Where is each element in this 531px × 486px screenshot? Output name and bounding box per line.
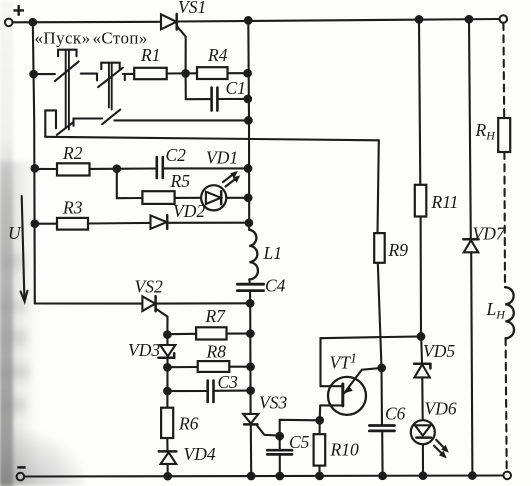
wire dashed load mid bbox=[503, 152, 506, 287]
node R2 row left bbox=[32, 165, 39, 172]
node rail VD7 bbox=[469, 472, 476, 479]
wire VD1 to column bbox=[226, 197, 248, 199]
wire dashed load top bbox=[502, 23, 505, 118]
svg-text:U: U bbox=[8, 223, 22, 243]
wire mid column upper bbox=[247, 20, 250, 229]
wire VD4 to rail bbox=[167, 464, 169, 476]
node rail C5 bbox=[277, 473, 284, 480]
capacitor C5 bbox=[279, 436, 281, 450]
svg-text:C4: C4 bbox=[265, 276, 286, 296]
wire left rail bbox=[33, 22, 35, 303]
pushbutton Stop head bbox=[101, 63, 119, 69]
resistor R10 bbox=[319, 420, 321, 434]
terminal minus bbox=[17, 473, 25, 481]
svg-text:R7: R7 bbox=[205, 306, 227, 326]
svg-text:R3: R3 bbox=[62, 198, 83, 218]
wire VS2 row left bbox=[35, 302, 142, 304]
label plus bbox=[14, 5, 25, 16]
node rail VD6 bbox=[420, 472, 427, 479]
wire R7 row left bbox=[167, 333, 196, 336]
svg-text:LН: LН bbox=[486, 299, 507, 322]
resistor R5 bbox=[142, 191, 174, 204]
svg-text:RН: RН bbox=[475, 120, 497, 143]
node VD1 / column bbox=[245, 195, 252, 202]
wire C1 branch bbox=[186, 73, 211, 99]
resistor R6 bbox=[161, 408, 173, 438]
terminal plus bbox=[5, 19, 13, 27]
thyristor VS2 bbox=[142, 296, 155, 311]
svg-text:VS1: VS1 bbox=[178, 0, 206, 17]
node VD2 / column L1 bbox=[246, 220, 253, 227]
node C3 / column bbox=[247, 387, 254, 394]
node rail VD4 bbox=[164, 473, 171, 480]
wire C1 to column bbox=[218, 98, 248, 100]
wire R3 to VD2 bbox=[88, 222, 151, 225]
capacitor C4 bbox=[237, 283, 263, 286]
scan smudge left band bbox=[0, 0, 13, 486]
wire VD6 to rail bbox=[422, 444, 424, 475]
wire VS3 gate bbox=[257, 425, 280, 435]
wire bracket rail to R9 bbox=[45, 137, 379, 141]
terminal top right bbox=[500, 15, 508, 23]
node collector R10 VS3wire bbox=[316, 417, 323, 424]
thyristor VS3 bbox=[243, 414, 258, 424]
node top bus / left rail bbox=[30, 19, 37, 26]
wire VD3 top bbox=[166, 335, 168, 345]
wire R1 to gate node bbox=[167, 72, 197, 74]
node left rail / Pusk contact bbox=[30, 71, 37, 78]
svg-text:R8: R8 bbox=[206, 342, 227, 362]
wire R8 row left bbox=[167, 366, 197, 368]
wire bbox=[13, 21, 162, 24]
resistor R3 bbox=[57, 218, 88, 230]
wire R9 column top bbox=[378, 140, 379, 233]
node emitter / R9 column bbox=[378, 365, 385, 372]
svg-text:VD2: VD2 bbox=[173, 201, 205, 221]
wire VD5 to VD6 bbox=[421, 377, 424, 420]
wire C3 row left bbox=[167, 390, 207, 392]
node VS3 gate / C5 bbox=[276, 433, 283, 440]
resistor R1 bbox=[134, 68, 167, 79]
wire VD7 column bbox=[469, 19, 471, 239]
svg-text:L1: L1 bbox=[263, 243, 282, 263]
wire C5 to rail bbox=[279, 455, 281, 476]
pushbutton Pusk head bbox=[58, 50, 76, 57]
inductor L1 bbox=[249, 230, 258, 280]
svg-text:C2: C2 bbox=[166, 145, 187, 165]
wire R11 to VD5 node bbox=[420, 217, 422, 337]
wire R10 to rail bbox=[318, 466, 320, 476]
LED VD1 bbox=[201, 185, 226, 210]
svg-text:C3: C3 bbox=[218, 372, 239, 392]
svg-text:VS2: VS2 bbox=[135, 277, 163, 297]
wire R7 to column bbox=[227, 333, 251, 335]
wire C6 to rail bbox=[381, 431, 383, 476]
node VS2 gate / R7 row bbox=[164, 331, 171, 338]
wire R4 to column bbox=[228, 72, 248, 74]
node rail R10 bbox=[316, 473, 323, 480]
capacitor C6 bbox=[369, 424, 394, 427]
node lower rail / mid column bbox=[245, 117, 252, 124]
node rail VS3 bbox=[248, 473, 255, 480]
svg-text:VD3: VD3 bbox=[128, 340, 160, 360]
node top bus / VD7 column bbox=[466, 16, 473, 23]
svg-text:VD7: VD7 bbox=[473, 224, 506, 244]
svg-text:R5: R5 bbox=[170, 171, 191, 191]
thyristor VS1 bbox=[161, 14, 176, 29]
svg-text:VD1: VD1 bbox=[206, 148, 238, 168]
resistor R7 bbox=[196, 327, 226, 339]
pushbutton Stop upper contact bbox=[96, 74, 98, 81]
wire mid column lower bbox=[249, 303, 252, 414]
svg-text:R9: R9 bbox=[388, 240, 409, 260]
scan smudge mid blotch bbox=[0, 162, 46, 486]
diode VD4 bbox=[159, 450, 177, 453]
wire VS2 to column bbox=[156, 302, 250, 304]
zener VD3 bbox=[160, 345, 175, 356]
node C4 / VS2 row bbox=[247, 300, 254, 307]
svg-text:R10: R10 bbox=[330, 440, 359, 460]
node rail C6 bbox=[379, 473, 386, 480]
pushbutton Stop lower contact bbox=[102, 110, 120, 125]
wire R6 to VD4 bbox=[166, 438, 168, 451]
wire R8 to column bbox=[229, 366, 250, 368]
scan smudge bottom corner bbox=[0, 428, 85, 486]
arrow U bbox=[22, 196, 25, 299]
resistor R8 bbox=[198, 361, 230, 372]
svg-text:«Пуск»: «Пуск» bbox=[35, 29, 91, 48]
wire base up and over bbox=[321, 336, 422, 386]
zener VD5 bbox=[414, 362, 430, 365]
wire VS3 to rail bbox=[250, 425, 252, 476]
svg-text:VT1: VT1 bbox=[330, 352, 357, 373]
wire R2 to C2 bbox=[90, 167, 157, 169]
node top bus / R11 column bbox=[416, 16, 423, 23]
node R2 R5 branch bbox=[114, 165, 121, 172]
svg-text:R2: R2 bbox=[62, 143, 83, 163]
wire R11 column bbox=[419, 19, 420, 184]
wire collector down bbox=[319, 405, 322, 420]
wire R3 left bbox=[35, 223, 57, 225]
wire R2 left bbox=[35, 168, 57, 170]
node C2 / column bbox=[245, 165, 252, 172]
wire top bus bbox=[177, 19, 500, 22]
node top bus / mid column bbox=[245, 17, 252, 24]
capacitor C3 bbox=[206, 381, 209, 403]
node base wire / R11 / VD5 bbox=[418, 333, 425, 340]
label minus bbox=[17, 466, 25, 469]
resistor R11 bbox=[415, 185, 427, 217]
node R7 / column bbox=[247, 330, 254, 337]
wire lower rail to mid column bbox=[114, 119, 248, 121]
resistor R4 bbox=[197, 67, 228, 79]
node C1 / column bbox=[245, 96, 252, 103]
wire gate node up to R10 node bbox=[280, 420, 320, 436]
wire R5 to VD1 bbox=[175, 197, 202, 199]
wire L1 to C4 bbox=[248, 279, 251, 284]
wire dashed load bottom bbox=[506, 338, 507, 471]
wire C4 down bbox=[249, 291, 251, 304]
diode VD2 bbox=[151, 215, 167, 228]
svg-text:VS3: VS3 bbox=[259, 393, 287, 413]
svg-text:C5: C5 bbox=[289, 432, 310, 452]
svg-text:VD4: VD4 bbox=[184, 444, 216, 464]
wire VS2 gate bbox=[156, 309, 167, 335]
svg-text:VD6: VD6 bbox=[425, 399, 457, 419]
wire VD2 to column bbox=[168, 222, 249, 224]
wire VD3 to R6 bbox=[166, 358, 168, 408]
svg-text:R11: R11 bbox=[431, 192, 459, 212]
node R1 R4 gate bbox=[182, 70, 189, 77]
svg-text:C1: C1 bbox=[226, 78, 246, 98]
svg-text:R4: R4 bbox=[207, 45, 228, 65]
scan bleedthrough noise bbox=[2, 255, 24, 269]
node R8 row left bbox=[164, 364, 171, 371]
capacitor C1 bbox=[210, 88, 213, 111]
pushbutton Pusk lower contact bbox=[45, 110, 56, 136]
node R8 / column bbox=[247, 363, 254, 370]
resistor RH bbox=[498, 118, 510, 152]
wire VD7 to rail bbox=[471, 252, 472, 475]
node C3 row left bbox=[164, 388, 171, 395]
wire R9 column down bbox=[378, 263, 382, 425]
wire C2 to column bbox=[163, 167, 248, 169]
wire R5 branch down bbox=[117, 169, 143, 199]
svg-text:R6: R6 bbox=[178, 414, 199, 434]
terminal bottom right bbox=[503, 472, 511, 480]
node R3 row left bbox=[32, 220, 39, 227]
svg-text:VD5: VD5 bbox=[423, 341, 455, 361]
inductor LH bbox=[505, 287, 514, 338]
LED VD6 bbox=[411, 420, 435, 444]
wire bottom rail bbox=[24, 476, 503, 477]
svg-text:R1: R1 bbox=[140, 45, 160, 65]
node R4 / column bbox=[244, 70, 251, 77]
pushbutton Pusk upper contact bbox=[35, 73, 55, 75]
resistor R9 bbox=[374, 233, 385, 263]
wire node to VD5 bbox=[420, 336, 423, 363]
diode VD7 bbox=[463, 238, 478, 241]
transistor VT1 bbox=[328, 377, 366, 415]
capacitor C2 bbox=[156, 157, 159, 178]
wire C3 to column bbox=[214, 390, 251, 392]
svg-text:«Стоп»: «Стоп» bbox=[93, 29, 148, 48]
resistor R2 bbox=[57, 163, 90, 175]
svg-text:C6: C6 bbox=[385, 404, 406, 424]
